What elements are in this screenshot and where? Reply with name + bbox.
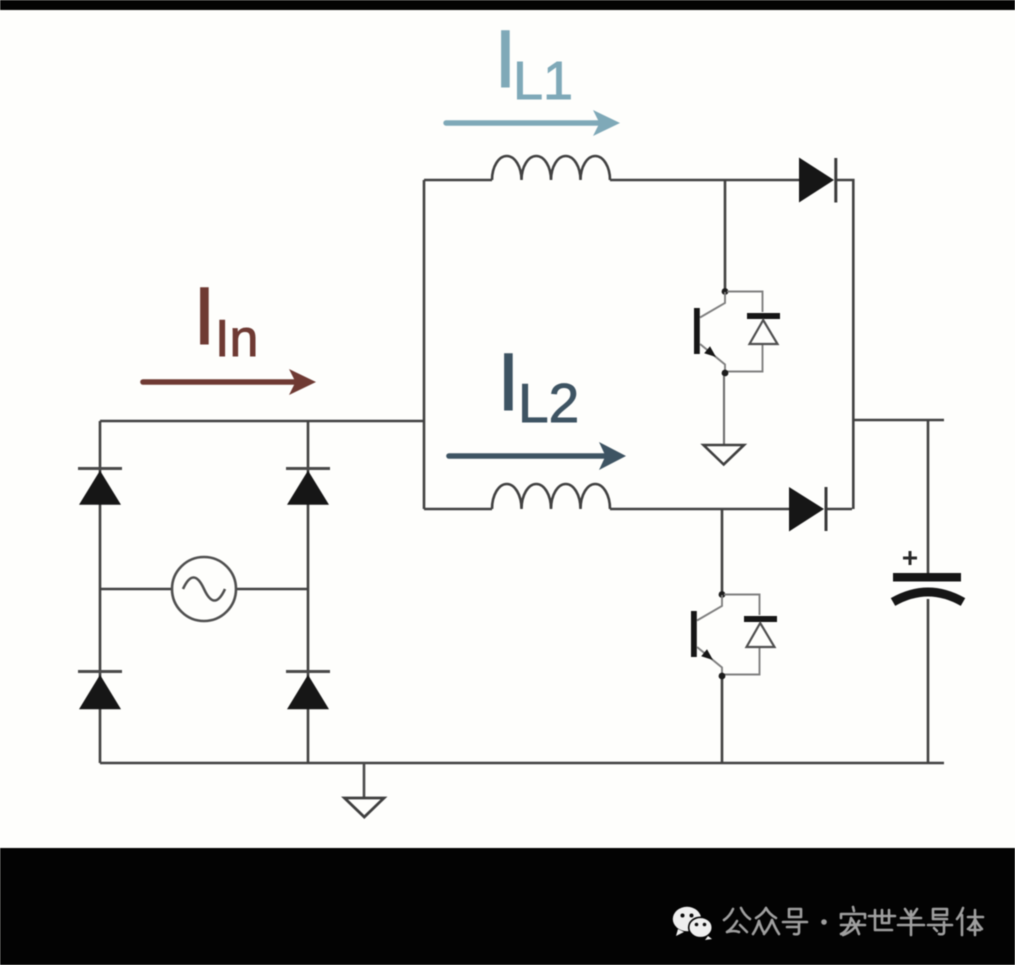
svg-text:In: In: [215, 310, 258, 368]
transistor Q1 (upper IGBT with antiparallel diode): [694, 288, 780, 376]
glyph 公: [724, 908, 750, 932]
node label IL2: [497, 337, 579, 434]
diode D4 bridge lower-right: [286, 672, 330, 710]
wire capacitor top lead: [927, 420, 930, 573]
bottom black banner bar: [0, 848, 1015, 965]
arrow IL1 current direction: [446, 110, 620, 136]
wire output node to capacitor: [852, 419, 944, 422]
wire top rail left segment: [424, 179, 492, 182]
diode D5 boost top: [799, 158, 836, 203]
node label IIn: [193, 271, 258, 368]
glyph 半: [898, 909, 924, 935]
ground under bridge: [345, 763, 385, 817]
wire boost bottom rail left segment: [424, 508, 492, 511]
diode D3 bridge lower-left: [78, 672, 122, 710]
glyph 安: [841, 907, 865, 935]
wire bridge left vertical: [99, 421, 102, 763]
svg-text:I: I: [193, 271, 216, 362]
glyph 世: [869, 910, 895, 930]
node label IL1: [494, 14, 573, 111]
wire AC source right lead: [236, 588, 308, 591]
diode D6 boost bottom: [789, 487, 826, 532]
wire IGBT Q2 emitter to rail: [721, 676, 724, 763]
inductor L1: [492, 156, 610, 180]
wire after diode D5 to corner: [836, 180, 853, 509]
wire after diode D6: [826, 508, 852, 511]
wire top rail right segment: [610, 179, 800, 182]
wire IGBT Q2 collector feed: [721, 509, 724, 595]
inductor L2: [492, 484, 610, 509]
wire left vertical of boost loop: [423, 180, 426, 509]
svg-text:L2: L2: [518, 372, 579, 434]
ground under Q1 emitter: [704, 376, 745, 465]
AC source V1: [172, 557, 236, 621]
svg-text:L1: L1: [513, 51, 573, 111]
glyph 号: [783, 909, 807, 934]
diode D2 bridge upper-right: [286, 469, 330, 505]
wire bridge right vertical: [307, 421, 310, 763]
glyph 导: [928, 909, 952, 934]
capacitor C1: [893, 551, 963, 602]
wechat logo in footer: [673, 907, 713, 940]
transistor Q2 (lower IGBT with antiparallel diode): [691, 591, 777, 679]
wire AC source left lead: [100, 588, 172, 591]
svg-text:I: I: [497, 337, 520, 428]
wire IGBT Q1 collector feed: [724, 180, 727, 292]
top black banner bar: [0, 0, 1015, 10]
separator dot: [821, 919, 827, 925]
wire capacitor bottom lead: [927, 599, 930, 763]
arrow IIn current direction: [143, 369, 316, 395]
diode D1 bridge upper-left: [78, 469, 122, 505]
wire boost bottom rail right segment: [610, 508, 790, 511]
glyph 体: [957, 908, 983, 935]
glyph 众: [753, 908, 779, 934]
footer text 公众号 · 安世半导体 (hand-drawn strokes): [724, 907, 983, 935]
wire input node from bridge: [100, 420, 424, 423]
arrow IL2 current direction: [449, 442, 626, 470]
wire ground bottom rail: [100, 762, 944, 765]
